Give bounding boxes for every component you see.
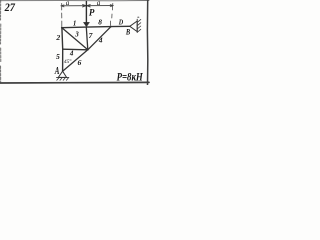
member 2 : upper-left vertical bbox=[61, 28, 64, 50]
support B hatching bbox=[137, 19, 141, 32]
support A hatching bbox=[57, 78, 69, 81]
svg-text:4: 4 bbox=[98, 36, 103, 45]
svg-text:45°: 45° bbox=[64, 58, 72, 65]
svg-text:2: 2 bbox=[55, 33, 60, 42]
border left bbox=[0, 0, 2, 82]
border right bbox=[146, 0, 148, 85]
member 4 : bottom horizontal bbox=[63, 48, 88, 51]
support A ground bbox=[57, 77, 69, 79]
svg-text:8: 8 bbox=[98, 17, 102, 26]
scan speck bbox=[137, 17, 139, 18]
chord to support B bbox=[111, 25, 130, 27]
svg-text:Р: Р bbox=[89, 8, 95, 18]
svg-text:1: 1 bbox=[73, 20, 77, 28]
svg-text:Р=8кН: Р=8кН bbox=[117, 71, 144, 83]
member 1 : top chord left bbox=[62, 26, 87, 29]
svg-text:А: А bbox=[54, 65, 59, 77]
dim arrow left bbox=[61, 5, 64, 7]
extension line left bbox=[61, 3, 63, 27]
support B triangle bbox=[130, 21, 137, 32]
member 7 : middle vertical bbox=[86, 27, 88, 50]
svg-text:D: D bbox=[118, 18, 123, 27]
border top bbox=[0, 0, 149, 2]
dim arrow right bbox=[110, 5, 113, 7]
member 3 : diagonal C to G bbox=[62, 28, 88, 50]
svg-text:5: 5 bbox=[56, 52, 60, 61]
extension line right bbox=[110, 3, 112, 25]
member 5 : lower-left vertical bbox=[62, 49, 64, 71]
svg-text:3: 3 bbox=[74, 31, 79, 39]
svg-text:а: а bbox=[97, 0, 101, 7]
svg-text:В: В bbox=[125, 28, 131, 37]
dimension line a+a bbox=[61, 5, 113, 7]
force P arrow bbox=[85, 1, 87, 23]
support A triangle bbox=[58, 71, 66, 77]
svg-text:27: 27 bbox=[4, 0, 16, 14]
dim arrows middle bbox=[83, 5, 91, 7]
member 6 : diagonal A to G bbox=[63, 50, 88, 71]
diagonal G to F bbox=[88, 27, 111, 50]
border bottom bbox=[0, 81, 149, 84]
svg-text:6: 6 bbox=[78, 58, 82, 67]
svg-text:а: а bbox=[66, 0, 70, 7]
member 8 : top chord right bbox=[86, 26, 111, 29]
svg-text:4: 4 bbox=[69, 49, 74, 57]
support B wall bar bbox=[136, 19, 138, 32]
